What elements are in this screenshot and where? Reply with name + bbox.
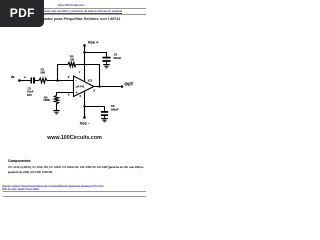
svg-text:Vcc -: Vcc -	[80, 121, 90, 126]
svg-text:4: 4	[79, 94, 81, 98]
node Vcc junction	[83, 51, 85, 53]
svg-text:16V: 16V	[27, 93, 32, 97]
resistor R1	[39, 78, 47, 83]
components body line 1	[8, 166, 143, 169]
wire R1 to op-amp pin2	[47, 80, 74, 82]
capacitor C1	[30, 77, 32, 83]
node IN terminal	[18, 79, 21, 82]
wire IN to C1	[19, 80, 31, 82]
components heading	[8, 159, 31, 163]
svg-text:100nF: 100nF	[111, 108, 119, 112]
header link line 2	[18, 9, 122, 13]
ground below R3	[53, 110, 60, 112]
svg-text:10K: 10K	[40, 70, 45, 74]
svg-text:100K: 100K	[43, 98, 50, 102]
resistor R3	[54, 96, 58, 111]
footer link line 1	[2, 185, 104, 188]
svg-text:6: 6	[93, 89, 95, 93]
footer rule 2	[3, 195, 146, 198]
wire branch to C2	[85, 53, 107, 57]
circuit schematic	[0, 0, 149, 198]
header rule 1	[3, 7, 146, 10]
node OUT terminal	[121, 85, 124, 88]
svg-text:IC1: IC1	[88, 78, 93, 82]
wire output	[94, 86, 122, 88]
document title	[29, 16, 121, 21]
footer line 2	[2, 188, 39, 191]
svg-text:IN: IN	[11, 75, 14, 79]
wire branch to C3	[85, 107, 105, 111]
svg-text:3: 3	[68, 93, 70, 97]
svg-text:2: 2	[68, 75, 70, 79]
node pin4 junction	[83, 105, 85, 107]
ground below C3	[101, 118, 108, 120]
power Vcc- terminal	[83, 116, 86, 119]
components body line 2	[8, 171, 52, 174]
PDF badge	[0, 0, 44, 27]
svg-text:Vcc +: Vcc +	[88, 40, 99, 45]
site name footer of schematic	[0, 135, 149, 141]
svg-text:uA741: uA741	[76, 85, 85, 89]
footer rule 1	[3, 190, 146, 193]
capacitor C2	[102, 57, 110, 59]
svg-text:OUT: OUT	[124, 81, 133, 86]
header rule 2	[3, 13, 146, 16]
svg-text:7: 7	[79, 71, 81, 75]
resistor R2	[68, 62, 76, 66]
svg-text:100nF: 100nF	[113, 56, 121, 60]
wire pin3 stub	[57, 93, 74, 96]
op-amp IC1	[74, 76, 94, 97]
ground below C2	[103, 64, 110, 66]
svg-text:1M: 1M	[70, 57, 75, 61]
wire feedback up	[58, 65, 69, 81]
header link line 1	[0, 3, 142, 7]
wire R2 to output node	[76, 65, 100, 87]
node output junction	[98, 85, 100, 87]
wire Vcc+ down to pin7	[84, 45, 86, 81]
svg-text:+: +	[24, 76, 26, 80]
wire C1 to R1	[35, 80, 39, 82]
capacitor C3	[101, 111, 108, 113]
wire pin4 down	[84, 91, 86, 117]
node feedback junction	[56, 79, 58, 81]
power Vcc+ terminal	[83, 44, 86, 47]
